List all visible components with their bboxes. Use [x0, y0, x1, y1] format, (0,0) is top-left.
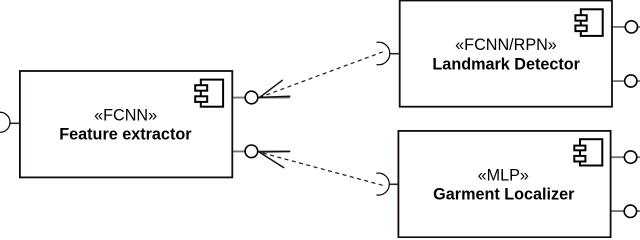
svg-text:Landmark Detector: Landmark Detector — [432, 56, 580, 74]
svg-text:«FCNN/RPN»: «FCNN/RPN» — [455, 36, 557, 54]
svg-text:Feature extractor: Feature extractor — [59, 126, 192, 144]
svg-text:«FCNN»: «FCNN» — [94, 106, 157, 124]
svg-text:«MLP»: «MLP» — [478, 167, 529, 185]
svg-text:Garment Localizer: Garment Localizer — [433, 186, 575, 204]
